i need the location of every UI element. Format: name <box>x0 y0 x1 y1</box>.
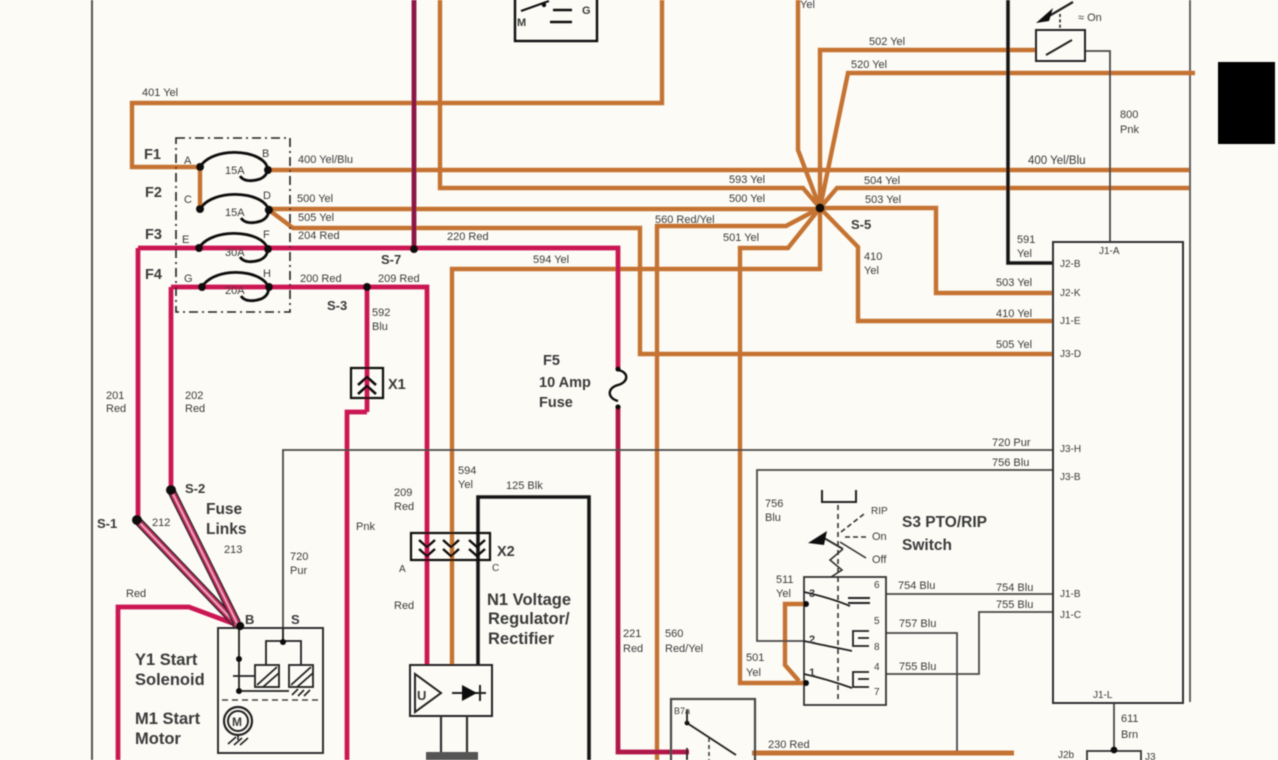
B internal wire <box>238 628 240 691</box>
svg-text:S3 PTO/RIP: S3 PTO/RIP <box>902 514 987 531</box>
svg-text:15A: 15A <box>225 165 245 177</box>
svg-text:S-1: S-1 <box>97 516 117 531</box>
wire 230 Red <box>752 751 1014 756</box>
svg-text:209: 209 <box>394 487 412 499</box>
svg-text:A: A <box>399 564 406 575</box>
labels: center column <box>290 465 703 655</box>
svg-text:Brn: Brn <box>1121 729 1138 741</box>
wire 594 Yel <box>452 208 820 665</box>
right frame line <box>1189 0 1191 702</box>
svg-text:A: A <box>184 155 192 167</box>
svg-text:Red/Yel: Red/Yel <box>665 643 703 655</box>
labels: right side <box>992 12 1139 741</box>
svg-text:3: 3 <box>809 588 815 600</box>
svg-text:560: 560 <box>665 628 683 640</box>
svg-text:201: 201 <box>106 390 124 402</box>
wire 755 Blu <box>886 612 1053 674</box>
B7a relay box <box>671 699 755 760</box>
wire 754 Blu <box>886 593 1053 595</box>
svg-text:8: 8 <box>874 642 880 653</box>
svg-text:J1-E: J1-E <box>1060 316 1081 327</box>
svg-text:M: M <box>517 17 526 29</box>
node solenoid internal B2 <box>236 688 242 694</box>
svg-text:F4: F4 <box>145 267 162 283</box>
svg-text:J2-K: J2-K <box>1060 288 1081 299</box>
node S3 pin 3 junction <box>803 601 809 607</box>
motor ground <box>228 735 248 745</box>
X2 connector <box>411 533 490 560</box>
wire 593 Yel <box>440 0 820 208</box>
svg-text:Fuse: Fuse <box>539 395 573 411</box>
svg-text:Red: Red <box>623 643 643 655</box>
node S solenoid coil tap <box>280 639 286 645</box>
motor M circle <box>224 707 252 735</box>
wire 720 Pur <box>283 450 1053 642</box>
fuse link 213 <box>171 490 237 623</box>
node S-2 <box>166 485 176 495</box>
node solenoid internal B1 <box>236 656 242 662</box>
svg-text:F2: F2 <box>145 185 162 201</box>
svg-text:593 Yel: 593 Yel <box>729 174 765 186</box>
svg-text:720 Pur: 720 Pur <box>992 437 1031 449</box>
svg-text:Red: Red <box>394 501 414 513</box>
wire 410 Yel <box>820 208 1053 321</box>
svg-text:G: G <box>582 5 591 17</box>
fuse F5 symbol <box>610 370 627 401</box>
wire A-C link <box>198 167 202 209</box>
svg-text:503 Yel: 503 Yel <box>996 277 1032 289</box>
wire 201 Red <box>136 248 141 520</box>
N1 voltage regulator box <box>410 665 492 716</box>
svg-text:J3: J3 <box>1145 752 1156 760</box>
svg-text:1: 1 <box>809 667 815 679</box>
node S-5 <box>815 203 824 212</box>
svg-text:400 Yel/Blu: 400 Yel/Blu <box>1028 155 1086 167</box>
svg-text:560 Red/Yel: 560 Red/Yel <box>655 214 715 226</box>
S3 contact arm pin3 <box>804 592 850 606</box>
fuse F1 arc <box>200 152 267 180</box>
svg-text:C: C <box>492 563 499 574</box>
labels: wire names left <box>106 87 569 600</box>
svg-text:S-7: S-7 <box>381 252 401 267</box>
wire 502 Yel <box>820 50 1036 208</box>
svg-text:594: 594 <box>458 465 476 477</box>
svg-text:204 Red: 204 Red <box>298 230 340 242</box>
junction dot J1-L <box>1111 747 1118 754</box>
node S3 pin 1 junction <box>803 680 809 686</box>
svg-text:Red: Red <box>394 600 414 612</box>
X1 connector <box>351 368 383 398</box>
svg-text:503 Yel: 503 Yel <box>865 194 901 206</box>
bottom right small box <box>1087 751 1141 760</box>
svg-text:Fuse: Fuse <box>206 501 243 518</box>
svg-text:Pnk: Pnk <box>356 521 375 533</box>
svg-text:6: 6 <box>874 580 880 591</box>
wire 125 Blk <box>478 497 589 760</box>
key switch box (M/G) <box>515 0 597 41</box>
svg-text:Switch: Switch <box>902 537 952 554</box>
S3 plunger cap <box>822 490 856 502</box>
S3 contact arm pin1 <box>804 674 852 688</box>
svg-text:M1 Start: M1 Start <box>135 710 201 728</box>
svg-text:520 Yel: 520 Yel <box>851 59 887 71</box>
fuse block dash-dot border <box>176 138 290 312</box>
svg-text:M: M <box>232 715 242 729</box>
connector J box <box>1053 242 1183 703</box>
wire 592 Blu to X1 <box>365 287 370 412</box>
svg-text:Yel: Yel <box>1017 248 1032 260</box>
svg-text:500 Yel: 500 Yel <box>297 193 333 205</box>
wire 520 Yel <box>820 73 1195 208</box>
svg-text:501 Yel: 501 Yel <box>723 232 759 244</box>
S3 contact arm pin2 <box>804 641 852 651</box>
node S-3 <box>363 283 371 291</box>
svg-text:S-2: S-2 <box>185 481 205 496</box>
svg-text:F1: F1 <box>144 147 161 163</box>
coil 2 <box>289 665 313 687</box>
svg-text:Rectifier: Rectifier <box>488 630 555 648</box>
svg-text:5: 5 <box>874 616 880 627</box>
labels: S designators <box>97 217 871 627</box>
N1 legs and ground bar <box>440 716 442 753</box>
svg-text:On: On <box>872 531 887 543</box>
left frame line <box>91 0 93 760</box>
svg-text:221: 221 <box>623 628 641 640</box>
svg-text:511: 511 <box>776 574 794 586</box>
fuse pin dots <box>195 163 273 291</box>
svg-text:20A: 20A <box>225 285 245 297</box>
solenoid / motor box <box>218 628 323 753</box>
svg-text:754 Blu: 754 Blu <box>898 580 935 592</box>
svg-text:Motor: Motor <box>135 730 181 748</box>
svg-text:800: 800 <box>1120 109 1138 121</box>
svg-text:Off: Off <box>872 554 887 566</box>
svg-text:591: 591 <box>1017 234 1035 246</box>
svg-text:Links: Links <box>206 521 246 538</box>
fuse F4 arc <box>202 272 268 300</box>
svg-text:505 Yel: 505 Yel <box>298 212 334 224</box>
svg-text:J3-H: J3-H <box>1060 444 1081 455</box>
labels: F5 and N1 <box>539 353 591 411</box>
svg-text:J3-D: J3-D <box>1060 349 1081 360</box>
svg-text:220 Red: 220 Red <box>447 231 489 243</box>
svg-text:Yel: Yel <box>776 588 791 600</box>
svg-text:505 Yel: 505 Yel <box>996 339 1032 351</box>
svg-text:Pnk: Pnk <box>1120 124 1139 136</box>
svg-text:F: F <box>263 229 270 241</box>
svg-text:J1-A: J1-A <box>1099 246 1120 257</box>
wire 401 Yel <box>132 0 662 167</box>
svg-text:125 Blk: 125 Blk <box>506 480 543 492</box>
svg-text:209 Red: 209 Red <box>378 273 420 285</box>
top-right On switch <box>1036 2 1085 61</box>
svg-text:Blu: Blu <box>765 512 781 524</box>
svg-text:J3-B: J3-B <box>1060 472 1081 483</box>
wire top stub to S-5 <box>798 0 820 208</box>
svg-text:757 Blu: 757 Blu <box>899 618 936 630</box>
svg-text:756: 756 <box>765 498 783 510</box>
svg-text:594 Yel: 594 Yel <box>533 254 569 266</box>
dashed separator <box>222 699 318 701</box>
wire 400 Yel/Blu <box>268 168 1189 172</box>
labels: S3 area <box>902 514 987 554</box>
ground under coil2 <box>292 689 310 696</box>
labels: S-5 area <box>655 0 905 277</box>
wire 591 Yel <box>1008 0 1053 263</box>
svg-text:4: 4 <box>874 662 880 673</box>
svg-text:X2: X2 <box>497 544 515 560</box>
svg-text:401 Yel: 401 Yel <box>142 87 178 99</box>
wire 200 Red / 209 Red <box>171 287 427 665</box>
svg-text:755 Blu: 755 Blu <box>899 661 936 673</box>
svg-text:230 Red: 230 Red <box>768 739 810 751</box>
svg-text:RIP: RIP <box>871 506 888 517</box>
svg-text:202: 202 <box>185 390 203 402</box>
svg-text:720: 720 <box>290 551 308 563</box>
node S-7 <box>410 245 418 253</box>
svg-text:Solenoid: Solenoid <box>135 671 205 689</box>
wire 560 Red/Yel <box>657 208 820 760</box>
labels: key switch box <box>517 5 591 29</box>
svg-text:U: U <box>417 688 426 703</box>
svg-text:410 Yel: 410 Yel <box>996 308 1032 320</box>
wire 503 Yel <box>820 208 1053 293</box>
wire 511 Yel branch <box>785 604 806 681</box>
wire 202 Red <box>169 287 174 490</box>
S3 contact box <box>804 577 886 705</box>
svg-text:Blu: Blu <box>372 321 388 333</box>
svg-text:2: 2 <box>809 634 815 646</box>
svg-text:S-3: S-3 <box>327 298 347 313</box>
wire 560 Red vertical (dark) to S-7 <box>412 0 417 249</box>
wire 221 Red below fuse F5 <box>618 408 689 752</box>
fuse F3 arc <box>199 233 267 261</box>
svg-text:S-5: S-5 <box>851 217 871 232</box>
S internal bracket <box>282 628 284 642</box>
svg-text:E: E <box>182 234 189 246</box>
svg-text:F5: F5 <box>543 353 560 369</box>
svg-text:B: B <box>245 612 254 627</box>
S3 selector fan <box>824 514 868 577</box>
wire Pnk below X1 <box>347 412 367 760</box>
wire 501 Yel <box>740 208 820 683</box>
B7a contact <box>687 723 736 755</box>
svg-text:J1-B: J1-B <box>1060 589 1081 600</box>
wire 505 Yel <box>269 210 1053 354</box>
svg-text:J2b: J2b <box>1058 750 1075 760</box>
svg-text:G: G <box>184 273 193 285</box>
svg-text:592: 592 <box>372 307 390 319</box>
svg-text:Red: Red <box>126 588 146 600</box>
node B solenoid terminal <box>236 622 244 630</box>
wire 611 Brn <box>1113 703 1115 750</box>
svg-text:Regulator/: Regulator/ <box>488 610 570 628</box>
svg-text:400 Yel/Blu: 400 Yel/Blu <box>298 154 353 166</box>
svg-text:502 Yel: 502 Yel <box>869 36 905 48</box>
svg-text:504 Yel: 504 Yel <box>864 175 900 187</box>
coil 1 <box>255 665 279 687</box>
fuse link 212 <box>137 520 238 626</box>
svg-text:611: 611 <box>1121 713 1139 725</box>
wire 204 Red / 220 Red <box>138 248 618 369</box>
svg-text:H: H <box>263 268 271 280</box>
svg-text:501: 501 <box>746 652 764 664</box>
svg-text:7: 7 <box>874 687 880 698</box>
svg-text:755 Blu: 755 Blu <box>996 599 1033 611</box>
svg-text:Red: Red <box>185 403 205 415</box>
svg-text:Yel: Yel <box>864 265 879 277</box>
svg-text:500 Yel: 500 Yel <box>729 193 765 205</box>
svg-text:30A: 30A <box>225 247 245 259</box>
svg-text:J1-C: J1-C <box>1060 610 1081 621</box>
svg-text:Pur: Pur <box>290 565 307 577</box>
svg-text:Y1 Start: Y1 Start <box>135 651 198 669</box>
svg-text:213: 213 <box>224 544 242 556</box>
svg-text:Yel: Yel <box>800 0 815 11</box>
svg-text:≈ On: ≈ On <box>1078 12 1102 24</box>
svg-text:C: C <box>184 194 192 206</box>
svg-text:212: 212 <box>152 517 170 529</box>
wire Red battery to B <box>118 607 240 760</box>
svg-text:N1 Voltage: N1 Voltage <box>487 591 571 609</box>
svg-text:D: D <box>263 190 271 202</box>
svg-text:J2-B: J2-B <box>1060 259 1081 270</box>
labels: fuse block <box>144 147 162 283</box>
wire 500 Yel <box>269 207 820 211</box>
svg-text:Red: Red <box>106 403 126 415</box>
svg-text:Yel: Yel <box>458 479 473 491</box>
wire 504 Yel <box>820 188 1189 208</box>
svg-text:410: 410 <box>864 251 882 263</box>
svg-text:F3: F3 <box>145 227 162 243</box>
svg-text:B7a: B7a <box>674 706 690 716</box>
S3 dashed actuator line <box>837 505 839 700</box>
wire 757 Blu <box>886 633 957 751</box>
svg-text:S: S <box>291 612 300 627</box>
wire 756 Blu <box>757 470 1053 641</box>
svg-text:754 Blu: 754 Blu <box>996 582 1033 594</box>
black censor box top right <box>1218 62 1275 144</box>
svg-text:10 Amp: 10 Amp <box>539 375 591 391</box>
svg-text:J1-L: J1-L <box>1093 690 1113 701</box>
svg-text:756 Blu: 756 Blu <box>992 457 1029 469</box>
wire key switch to J1-A <box>1085 51 1110 242</box>
fuse F2 arc <box>200 194 268 222</box>
node S-1 <box>132 515 142 525</box>
svg-text:15A: 15A <box>225 207 245 219</box>
svg-text:Yel: Yel <box>746 667 761 679</box>
svg-text:200 Red: 200 Red <box>300 273 342 285</box>
svg-text:X1: X1 <box>388 377 406 393</box>
svg-text:B: B <box>262 148 269 160</box>
